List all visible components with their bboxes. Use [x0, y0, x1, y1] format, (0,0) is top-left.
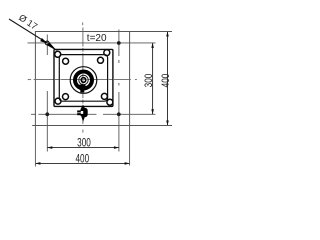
corner hole bottom-right outer [107, 99, 113, 105]
square tube outer contour [54, 49, 113, 106]
corner hole bottom-left outer [55, 98, 61, 104]
bolt line bottom [31, 113, 36, 115]
bolt hole marker bottom-right [117, 112, 121, 116]
plate bottom edge left overshoot [32, 125, 36, 127]
centerline vertical [82, 22, 84, 25]
leader arrow [40, 38, 47, 43]
centerline horizontal [28, 79, 31, 81]
svg-text:300: 300 [77, 137, 91, 150]
svg-text:400: 400 [160, 73, 172, 87]
hub black ring [75, 72, 92, 89]
hub outer circle [70, 67, 97, 94]
svg-text:300: 300 [143, 73, 155, 87]
dim 400 right: line [167, 32, 169, 126]
bolt line right / extension [118, 30, 120, 57]
ext 400 top [130, 31, 172, 33]
dim 300 bottom: line [47, 147, 119, 149]
bolt hole marker top-right [117, 41, 121, 45]
corner hole bottom-right inner [101, 93, 107, 99]
hub small ring [81, 78, 86, 83]
ext 400 bottom [130, 125, 172, 127]
dim 400 bottom: line [35, 162, 129, 164]
base plate 400x400 outline [35, 32, 129, 126]
bottom fitting [81, 105, 86, 109]
hub keyway [79, 85, 85, 90]
corner hole top-left inner [63, 58, 69, 64]
bolt line left / extension [46, 35, 48, 56]
dim 300 right: line [152, 43, 154, 114]
bolt hole marker bottom-left [45, 112, 49, 116]
corner hole top-left outer [55, 51, 61, 57]
svg-text:400: 400 [75, 153, 89, 166]
bolt hole marker top-left [45, 41, 49, 45]
bolt line top [28, 42, 156, 44]
svg-text:t=20: t=20 [87, 33, 107, 44]
leader line dia17 [9, 19, 47, 43]
ext 400 left [34, 126, 36, 167]
square tube inner contour [59, 55, 107, 102]
corner hole top-right inner [98, 57, 104, 63]
corner hole bottom-left inner [63, 94, 69, 100]
ext 400 right-bottom [129, 126, 131, 166]
hub mid circle [79, 75, 88, 84]
corner hole top-right outer [104, 50, 110, 56]
